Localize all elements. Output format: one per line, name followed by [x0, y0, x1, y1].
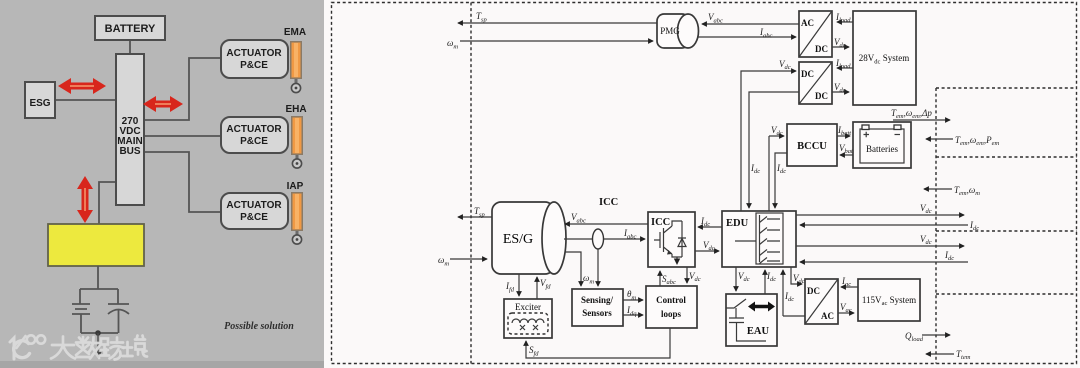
wire Idc EDU to ICC [698, 226, 722, 228]
wire Tsp to engine (top) [458, 22, 657, 24]
watermark glyph da [51, 337, 75, 359]
svg-text:P&CE: P&CE [240, 212, 268, 223]
wire Vdc EDU to DC/AC upper [791, 267, 802, 284]
dashed load cell divider 1 [936, 87, 1077, 89]
wire Iload 28V to DCDC [837, 67, 853, 69]
svg-text:Idc: Idc [700, 216, 710, 228]
ground stub [95, 333, 102, 359]
svg-text:Tem,ωm: Tem,ωm [954, 185, 980, 197]
svg-text:Control: Control [656, 295, 686, 305]
svg-text:EMA: EMA [284, 27, 306, 38]
wire Idc EDU to DC/AC lower [783, 270, 805, 316]
svg-text:Idc: Idc [944, 250, 954, 262]
wire BCCU to EDU (Idc) [775, 153, 787, 208]
dashed load cell divider 3 [936, 230, 1077, 232]
svg-text:Idc: Idc [969, 220, 979, 232]
wire Iabc PMG to ACDC [698, 36, 796, 38]
Sensing/Sensors box [572, 289, 623, 326]
left gray panel background [0, 0, 324, 368]
red double arrow ESG-bus [58, 78, 106, 94]
wire Vfd exciter to ESG [536, 277, 538, 299]
svg-text:Vdc: Vdc [779, 59, 791, 71]
svg-text:Idc: Idc [766, 271, 776, 283]
wire Iabc branch to sensors [597, 249, 599, 286]
Batteries box [853, 122, 911, 168]
junction dot [95, 330, 101, 336]
Exciter box [504, 299, 552, 338]
red double arrow bus-actuators [143, 96, 183, 112]
wire DCDC lower to EDU [749, 92, 799, 208]
IAP ram orange bar [291, 192, 303, 244]
DC/AC converter box [805, 279, 838, 324]
svg-text:ωm: ωm [583, 273, 594, 286]
wire bus to EMA actuator [144, 58, 221, 120]
svg-text:Tsp: Tsp [476, 11, 488, 24]
wire Vdc DCDC to 28V [832, 91, 849, 93]
outer dashed system boundary [332, 3, 1077, 364]
watermark glyph jing [123, 336, 148, 357]
wire Iac 115V to DC/AC [841, 286, 858, 288]
BCCU box [787, 124, 837, 166]
EHA ram orange bar [291, 116, 303, 168]
wire wm to ESG [450, 258, 487, 260]
ICC box [648, 212, 695, 267]
svg-text:ES/G: ES/G [503, 232, 533, 247]
wire Vdc EDU to EAU [735, 267, 737, 291]
svg-text:Vdc: Vdc [920, 203, 932, 215]
ICC bottom exit arrow [674, 257, 680, 265]
wire Tsp ESG to engine [458, 216, 492, 218]
IGBT Q1 inside ICC [654, 221, 682, 257]
svg-text:Iac: Iac [841, 276, 851, 288]
svg-text:ACTUATOR: ACTUATOR [226, 124, 282, 135]
svg-text:DC: DC [815, 44, 828, 54]
svg-text:ICC: ICC [599, 197, 618, 208]
wire Vabc ICC to ESG [565, 223, 648, 225]
svg-text:Tem,ωem,Δp: Tem,ωem,Δp [891, 108, 932, 120]
svg-text:BATTERY: BATTERY [105, 23, 156, 35]
svg-text:Vabc: Vabc [708, 12, 723, 25]
svg-text:AC: AC [821, 311, 834, 321]
270 VDC MAIN BUS box [116, 54, 144, 205]
Control loops box [646, 286, 697, 328]
storage bottom bar wire [81, 332, 118, 334]
wire Iabc ESG to ICC [564, 238, 645, 240]
svg-text:Possible solution: Possible solution [224, 321, 294, 332]
svg-text:Iabc: Iabc [759, 27, 773, 40]
svg-text:ωm: ωm [438, 255, 449, 268]
wire bus to IAP actuator [144, 152, 221, 212]
wire Idc loads to EDU 2 [800, 261, 968, 263]
svg-text:Tem,ωem,Pem: Tem,ωem,Pem [955, 135, 999, 147]
ACTUATOR P&CE box EHA [221, 117, 288, 153]
EMA ram orange bar [290, 41, 302, 93]
svg-text:AC: AC [801, 18, 814, 28]
svg-text:ACTUATOR: ACTUATOR [226, 200, 282, 211]
dashed load cell divider 2 [936, 156, 1077, 158]
wire Ibatt BCCU to Batteries [837, 135, 850, 137]
svg-text:EDU: EDU [726, 218, 749, 229]
svg-text:DC: DC [807, 286, 820, 296]
svg-text:Sfd: Sfd [529, 345, 539, 358]
ACTUATOR P&CE box IAP [221, 193, 288, 229]
28V system box [853, 11, 916, 105]
svg-text:Idc: Idc [776, 163, 786, 175]
svg-text:PMG: PMG [660, 26, 680, 36]
battery symbol plates [72, 304, 90, 333]
wire Vdc EDU to loads 1 [796, 214, 964, 216]
svg-text:EHA: EHA [285, 104, 306, 115]
svg-text:Idc: Idc [784, 291, 794, 303]
wire Vdc EDU to loads 2 [796, 245, 964, 247]
dashed loads column boundary [935, 88, 937, 364]
ACTUATOR P&CE box EMA [221, 40, 288, 78]
svg-text:BUS: BUS [119, 146, 140, 157]
EAU box [726, 294, 777, 346]
svg-text:Ttem: Ttem [956, 349, 971, 361]
wire Tem wem Pem from loads [926, 138, 953, 140]
wire Tem wem dp to loads [893, 119, 950, 121]
wire Vac DC/AC to 115V [838, 312, 854, 314]
wire EDU to BCCU (Vdc) with branch arrow into EDU [769, 136, 784, 211]
svg-text:Ibatt: Ibatt [837, 125, 851, 137]
DC/DC converter box [799, 62, 832, 104]
yellow converter box [48, 224, 144, 266]
wire Ttem from loads [926, 353, 954, 355]
svg-text:Vabc: Vabc [571, 212, 586, 225]
svg-text:Exciter: Exciter [515, 302, 541, 312]
wire EDU to DCDC upper (Vdc) [741, 71, 796, 211]
ES/G generator [492, 202, 566, 274]
wire Idq sensors to control [623, 314, 643, 316]
capacitor symbol [108, 304, 129, 333]
ESG box [25, 82, 55, 118]
svg-text:Idq: Idq [626, 305, 637, 318]
EDU contactor sub-box [756, 213, 783, 264]
svg-text:loops: loops [661, 309, 682, 319]
watermark logo 100 [10, 335, 45, 359]
svg-text:Vdc: Vdc [738, 271, 750, 283]
svg-text:ICC: ICC [651, 217, 670, 228]
wire Vabc ACDC to PMG [702, 23, 799, 25]
wire Tem wm from loads (2nd cell) [924, 188, 952, 190]
current sensor oval [593, 229, 604, 249]
wire bus to EHA actuator [144, 135, 221, 137]
wire Vdc ACDC to 28V [832, 46, 849, 48]
wire Vdc ICC to control [686, 267, 688, 283]
wire Vbatt Batteries to BCCU [840, 154, 853, 156]
svg-text:Vdc: Vdc [689, 271, 701, 283]
115V system box [858, 279, 920, 321]
wire wm branch to sensors [565, 252, 581, 286]
svg-text:Sensors: Sensors [582, 308, 612, 318]
svg-text:Vdc: Vdc [793, 273, 805, 285]
wire yellow box to storage [97, 266, 99, 289]
PMG generator [657, 14, 699, 48]
AC/DC converter box [799, 11, 832, 57]
svg-text:Qload: Qload [905, 331, 924, 343]
wire Vdc ICC to EDU [695, 250, 719, 252]
svg-text:EAU: EAU [747, 326, 770, 337]
watermark glyph kua [100, 338, 124, 360]
wire Ifd ESG to exciter [518, 274, 520, 296]
svg-text:Sensing/: Sensing/ [581, 295, 614, 305]
wire Qload to loads [922, 334, 950, 336]
svg-text:ACTUATOR: ACTUATOR [226, 48, 282, 59]
svg-text:Batteries: Batteries [866, 144, 898, 154]
svg-text:P&CE: P&CE [240, 60, 268, 71]
dashed load cell divider 4 [936, 293, 1077, 295]
wire Sfd control loops to exciter [526, 328, 670, 358]
wire wm to PMG [460, 40, 653, 42]
dashed engine boundary [470, 3, 472, 364]
wire bus to yellow converter box [99, 182, 116, 224]
wire ESG to bus [55, 99, 116, 101]
svg-text:ESG: ESG [29, 98, 50, 109]
svg-text:Idc: Idc [750, 163, 760, 175]
wire Idc EAU to EDU [764, 270, 766, 294]
diode D1 inside ICC [678, 221, 686, 257]
svg-text:BCCU: BCCU [797, 141, 827, 152]
storage top bar wire [80, 289, 118, 304]
wire Sabc control to ICC [659, 271, 661, 286]
wire theta m sensors to control [623, 299, 643, 301]
svg-text:ωm: ωm [447, 38, 458, 51]
wire Iload 28V to ACDC [837, 21, 853, 23]
svg-text:Vfd: Vfd [540, 278, 551, 291]
svg-text:DC: DC [815, 91, 828, 101]
BATTERY box [95, 16, 165, 40]
svg-text:P&CE: P&CE [240, 136, 268, 147]
svg-text:Vdc: Vdc [920, 234, 932, 246]
svg-text:Ifd: Ifd [505, 281, 515, 294]
svg-text:DC: DC [801, 69, 814, 79]
wire battery to bus [129, 40, 131, 54]
EDU box [722, 211, 796, 267]
red double arrow bus-yellow box [77, 176, 93, 223]
wire Idc loads to EDU 1 [800, 224, 968, 226]
svg-text:Sabc: Sabc [662, 274, 676, 286]
svg-text:Vac: Vac [840, 302, 852, 314]
svg-text:Vdc: Vdc [771, 125, 783, 137]
svg-text:IAP: IAP [287, 181, 304, 192]
left panel darker bottom strip [0, 361, 324, 368]
svg-text:Vdc: Vdc [703, 240, 715, 252]
watermark glyph shu [76, 337, 100, 359]
